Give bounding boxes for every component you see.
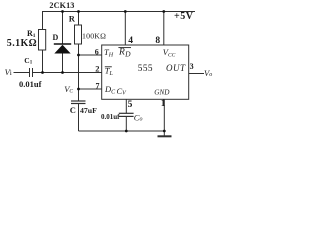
- svg-text:C: C: [70, 105, 76, 115]
- svg-text:5.1KΩ: 5.1KΩ: [7, 38, 37, 49]
- svg-text:D: D: [53, 33, 59, 42]
- svg-text:0.01uf: 0.01uf: [101, 113, 120, 121]
- svg-text:Vi: Vi: [5, 67, 12, 77]
- svg-text:2: 2: [95, 64, 99, 74]
- svg-text:RD: RD: [118, 48, 131, 59]
- svg-text:R: R: [69, 14, 76, 24]
- svg-text:4: 4: [128, 36, 133, 46]
- svg-text:0.01uf: 0.01uf: [19, 79, 42, 89]
- svg-text:6: 6: [95, 47, 99, 56]
- svg-text:2CK13: 2CK13: [49, 1, 74, 10]
- svg-text:GND: GND: [154, 88, 170, 96]
- svg-text:7: 7: [96, 81, 100, 90]
- svg-text:OUT: OUT: [166, 63, 186, 73]
- svg-text:5: 5: [128, 100, 133, 110]
- svg-text:100KΩ: 100KΩ: [82, 31, 106, 40]
- svg-text:8: 8: [155, 36, 160, 46]
- svg-text:+5V: +5V: [174, 11, 194, 22]
- svg-text:47uF: 47uF: [80, 106, 97, 115]
- svg-text:3: 3: [190, 62, 194, 71]
- svg-text:555: 555: [138, 64, 153, 74]
- svg-text:1: 1: [161, 99, 166, 109]
